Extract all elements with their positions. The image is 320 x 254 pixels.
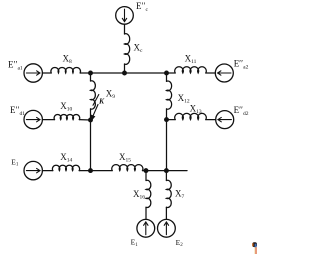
source E1 (bottom) <box>137 219 155 237</box>
source E''c (top current source) <box>116 7 134 25</box>
wire <box>124 24 126 34</box>
node (X16 junction) <box>144 168 149 173</box>
inductor X16 <box>146 180 151 207</box>
svg-text:X12: X12 <box>178 93 190 105</box>
wire <box>166 73 168 81</box>
source E1 (left) <box>24 161 42 179</box>
inductor X14 <box>52 165 79 170</box>
svg-text:X8: X8 <box>63 53 73 65</box>
wire <box>143 170 188 172</box>
inductor X7 <box>166 180 171 207</box>
fault slash <box>93 95 99 106</box>
svg-text:X16: X16 <box>133 189 145 201</box>
svg-text:E2: E2 <box>176 238 184 248</box>
wire <box>90 73 92 81</box>
svg-text:E′′d1: E′′d1 <box>10 105 25 117</box>
svg-text:X7: X7 <box>175 189 185 201</box>
source E''a1 <box>24 64 42 82</box>
bottom bus wire <box>91 170 113 172</box>
node (X13 junction) <box>164 117 169 122</box>
wire <box>42 119 54 121</box>
wire <box>166 109 168 120</box>
source E2 (bottom) <box>158 219 176 237</box>
node (X7 junction) <box>164 168 169 173</box>
svg-text:X10: X10 <box>60 101 72 113</box>
wire <box>145 207 147 219</box>
inductor X11 <box>175 67 207 73</box>
node (bus right junction) <box>164 71 169 76</box>
inductor X13 <box>175 113 207 119</box>
node (bus left junction) <box>88 71 93 76</box>
svg-text:E′′a1: E′′a1 <box>8 60 23 72</box>
wire <box>42 170 52 172</box>
inductor X12 <box>167 81 172 109</box>
fault arrow K <box>90 105 98 122</box>
wire <box>165 171 167 181</box>
wire <box>167 119 176 121</box>
wire <box>79 170 90 172</box>
cursor mark (bottom-right) <box>252 242 257 254</box>
wire <box>42 72 51 74</box>
svg-text:Xc: Xc <box>134 42 144 54</box>
wire <box>80 72 90 74</box>
wire <box>206 119 216 121</box>
svg-text:X13: X13 <box>190 103 202 115</box>
inductor X15 <box>112 165 143 171</box>
wire <box>79 119 90 121</box>
wire (left vertical) <box>90 120 92 171</box>
wire (right vertical) <box>166 120 168 171</box>
svg-text:E′′d2: E′′d2 <box>234 105 249 117</box>
inductor Xc <box>125 34 130 65</box>
wire <box>167 72 176 74</box>
wire <box>165 207 167 219</box>
inductor X8 <box>51 67 81 73</box>
wire <box>90 109 92 120</box>
source E''d2 <box>216 111 234 129</box>
inductor X9 <box>91 81 96 109</box>
svg-text:E1: E1 <box>11 157 19 167</box>
wire <box>124 64 126 73</box>
node (Xc junction) <box>122 71 127 76</box>
inductor X10 <box>54 114 80 119</box>
svg-text:X9: X9 <box>106 89 116 101</box>
top bus wire <box>91 72 167 74</box>
source E''a2 <box>215 64 233 82</box>
svg-text:E1: E1 <box>131 238 139 248</box>
svg-text:X14: X14 <box>60 152 72 164</box>
source E''d1 <box>24 110 42 128</box>
node (bottom-left junction) <box>88 168 93 173</box>
svg-text:X15: X15 <box>119 152 131 164</box>
svg-text:E′′a2: E′′a2 <box>234 58 249 70</box>
svg-text:X11: X11 <box>185 53 197 65</box>
node (fault junction) <box>88 118 93 123</box>
wire <box>206 72 216 74</box>
svg-text:E′′c: E′′c <box>136 1 148 13</box>
wire <box>145 171 147 181</box>
svg-text:K: K <box>98 96 105 105</box>
